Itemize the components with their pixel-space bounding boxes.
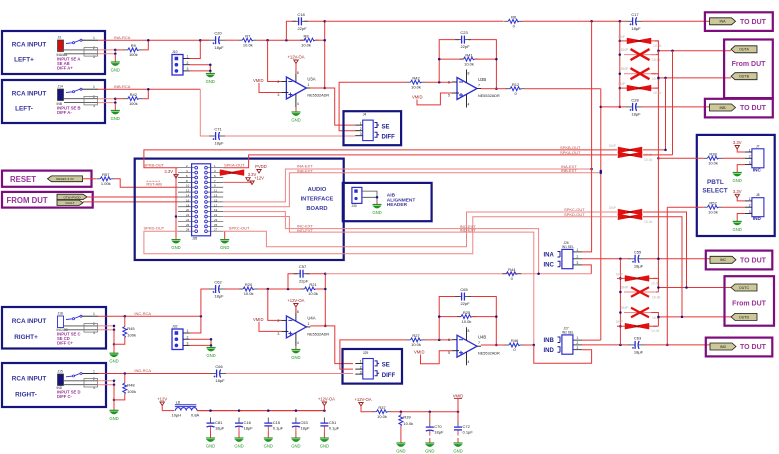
svg-text:100k: 100k [129, 101, 138, 106]
svg-text:1: 1 [93, 369, 95, 373]
svg-text:13: 13 [214, 194, 218, 198]
resistor R12 0 [506, 82, 525, 96]
switch contact J18 pin1 [66, 315, 82, 320]
svg-text:11: 11 [214, 189, 217, 193]
svg-text:U4A: U4A [307, 315, 315, 320]
svg-text:18µF: 18µF [214, 45, 224, 50]
wire U3A output to J4 pin1 [325, 88, 356, 125]
svg-text:GND: GND [111, 68, 120, 73]
svg-text:16: 16 [186, 198, 190, 202]
label INPUT SE A / SE AB / DIFF A+ [57, 57, 80, 71]
svg-text:3: 3 [577, 346, 579, 350]
svg-text:18µF: 18µF [215, 426, 225, 431]
svg-text:1: 1 [749, 197, 751, 201]
svg-text:3: 3 [187, 67, 189, 71]
capacitor C65 22pF feedback U4B [439, 297, 496, 346]
wire R6 to C17 [523, 20, 626, 22]
svg-text:R39: R39 [403, 415, 411, 420]
pin stubs J15 1,2,3 [64, 369, 98, 390]
svg-text:DNP: DNP [618, 82, 626, 86]
op-amp U4A NE5532ADR [277, 308, 329, 346]
svg-text:DIFF C+: DIFF C+ [57, 341, 73, 346]
svg-text:C15: C15 [273, 420, 281, 425]
junction U3B inverting [438, 81, 441, 84]
svg-text:R12: R12 [512, 82, 520, 87]
wire J28 left pin bus [175, 168, 177, 232]
block FROM DUT box [2, 192, 93, 208]
wire INA-EXT [223, 169, 591, 202]
DNP resistor bridge INA-OUTA [618, 35, 662, 48]
tag FAULT [57, 200, 83, 205]
svg-text:VMID: VMID [253, 317, 263, 322]
resistor R42b 10.0k input U3B [407, 75, 426, 89]
resistor R37 10.0k [373, 405, 392, 419]
capacitor C16 18uF [235, 418, 253, 432]
block RCA INPUT RIGHT- box [2, 363, 106, 407]
junction J10 pins 2,3 [209, 63, 212, 72]
ground below J15 [109, 410, 118, 421]
wire R6 line from U3A output [325, 20, 504, 22]
wire SPKA-OUT exits AIB top [223, 155, 617, 168]
svg-text:0.1µF: 0.1µF [329, 426, 340, 431]
ground at J30 [372, 202, 381, 216]
junction J18 pins [113, 315, 126, 346]
svg-text:10.0k: 10.0k [652, 296, 661, 300]
svg-text:INA: INA [720, 20, 727, 24]
svg-text:22pF: 22pF [299, 278, 309, 283]
svg-text:GND: GND [206, 444, 215, 449]
connector shell J14 pins 2,3 [84, 96, 98, 105]
svg-text:J10: J10 [172, 50, 178, 54]
svg-text:18µF: 18µF [631, 112, 641, 117]
jumper J4 [355, 113, 373, 141]
wire C20 to R7 [225, 39, 238, 41]
junction OUTA [657, 50, 674, 160]
wire J18 pins 2,3 common [98, 326, 114, 330]
svg-text:J4: J4 [363, 113, 367, 117]
capacitor C70 18uF [426, 422, 444, 436]
svg-text:DNP: DNP [636, 39, 642, 43]
wire OUTB to SPKB bridge vertical [665, 78, 667, 150]
svg-text:GND: GND [109, 359, 118, 364]
wire OUTB line [658, 77, 731, 79]
ground below J14 [111, 103, 120, 121]
header J32 [172, 325, 190, 350]
junction J3 pins 2,3 [114, 49, 117, 55]
svg-text:SPKD-OUT: SPKD-OUT [564, 212, 585, 217]
junction inverting node [266, 39, 287, 42]
wire to R9 [115, 49, 124, 51]
svg-text:C62: C62 [214, 280, 222, 285]
junction J28 left bus [175, 215, 178, 218]
svg-text:10.0k: 10.0k [462, 319, 472, 324]
wire +12V to L6 [162, 410, 174, 412]
wire R9 to INA-RCA [143, 40, 149, 50]
tag OUTC from DUT [731, 284, 757, 291]
junction J15 pins [113, 372, 126, 401]
junction C55/OUTA vertical [657, 258, 660, 261]
wire OUTD line [658, 316, 731, 318]
wire X4 to OUTD [651, 313, 658, 327]
svg-text:C63: C63 [634, 335, 642, 340]
svg-text:C66: C66 [215, 364, 223, 369]
svg-text:C55: C55 [634, 249, 642, 254]
svg-text:15: 15 [214, 198, 218, 202]
junction J32 pins 2,3 [210, 338, 213, 347]
svg-text:RCA INPUT: RCA INPUT [12, 318, 47, 325]
vertical OUTA to R38 [657, 51, 659, 288]
svg-text:1: 1 [93, 312, 95, 316]
svg-text:21: 21 [214, 213, 218, 217]
junction R52 vertical at C63 line [666, 344, 669, 347]
resistor R25 10.0k feedback U4B [439, 316, 461, 318]
svg-text:4: 4 [297, 341, 299, 345]
wire IND-EXT [223, 217, 534, 345]
svg-text:J29: J29 [363, 351, 369, 355]
svg-text:+12V-OA: +12V-OA [287, 298, 304, 303]
svg-text:OUTC: OUTC [739, 286, 750, 290]
svg-text:10.0k: 10.0k [652, 58, 661, 62]
DNP crossed resistor INA-OUTA [621, 48, 661, 62]
block RCA INPUT RIGHT+ box [2, 307, 106, 349]
resistor R45 100k to ground [124, 316, 126, 326]
svg-text:GND: GND [291, 355, 300, 360]
ground below J10 [206, 72, 215, 85]
capacitor C57 22pF feedback [288, 274, 325, 289]
wire R52 feed vertical to IND line [666, 207, 668, 345]
wire INC net down bridge column [619, 259, 621, 345]
svg-text:10.0k: 10.0k [653, 91, 662, 95]
power +12V-OA flag right [318, 397, 335, 406]
svg-text:From DUT: From DUT [732, 61, 767, 68]
wire C62 to R20 [225, 288, 243, 290]
wire J4 pin2 to R42b input [339, 82, 406, 131]
wire J30 pins to ground [362, 191, 377, 201]
bracket SE [375, 123, 380, 128]
svg-text:R25: R25 [463, 310, 471, 315]
svg-text:INC: INC [544, 262, 555, 268]
svg-text:U4B: U4B [478, 335, 486, 340]
svg-text:18µF: 18µF [631, 26, 641, 31]
tag INB to DUT [710, 104, 736, 111]
wire SPKC-OUT exits AIB [223, 212, 617, 247]
junction output node [323, 20, 326, 89]
svg-text:SPKB-OUT: SPKB-OUT [144, 162, 165, 167]
svg-text:C53: C53 [300, 420, 308, 425]
svg-text:J7: J7 [756, 144, 760, 148]
svg-text:19: 19 [214, 208, 218, 212]
wire 3.3V to J8 pin1 [737, 198, 745, 201]
ground below C15 [264, 432, 273, 449]
svg-text:J8: J8 [756, 193, 760, 197]
svg-text:AUDIO: AUDIO [308, 187, 327, 193]
svg-text:7: 7 [478, 84, 480, 88]
wire R46 to J27 route [524, 344, 534, 346]
svg-text:SPKA-OUT: SPKA-OUT [560, 150, 581, 155]
svg-text:GND: GND [425, 449, 434, 454]
capacitor C81 18uF [207, 418, 225, 432]
wire INC-RCA to J32 pin1 [190, 316, 201, 333]
svg-text:1: 1 [93, 36, 95, 40]
svg-text:SE: SE [382, 363, 390, 369]
wire R21 to output node [316, 288, 326, 290]
wire under-route to J27 pin3 [534, 345, 592, 363]
svg-text:2: 2 [577, 341, 579, 345]
wire INC to J26 pin3 [582, 265, 591, 274]
svg-text:6: 6 [448, 81, 450, 85]
junction C55 line [619, 258, 622, 261]
svg-text:10.0k: 10.0k [651, 329, 660, 333]
pin stubs J3 1,2,3 [64, 36, 98, 59]
svg-text:GND: GND [206, 353, 215, 358]
svg-text:1: 1 [577, 336, 579, 340]
wire to R37 [367, 411, 374, 413]
wire SPKA DNP to vertical [643, 154, 673, 156]
wire inverting node down to U3A pin2 [268, 40, 282, 81]
svg-text:RIGHT+: RIGHT+ [14, 334, 38, 341]
wire C28 to TO DUT INB [642, 106, 711, 108]
junction INC-RCA/J32 [200, 315, 203, 318]
DNP resistor bridge IND-OUTD [616, 320, 660, 333]
svg-text:INB-EXT: INB-EXT [561, 168, 577, 173]
wire J29 pin2 to R27 [340, 340, 407, 369]
svg-text:C72: C72 [463, 424, 471, 429]
svg-text:TO DUT: TO DUT [740, 344, 767, 351]
junction R42/INB-RCA [147, 88, 150, 91]
pin stubs J18 1,2,3 [64, 312, 98, 335]
wire DNP3 to OUTC [651, 278, 658, 292]
jumper J26 IN1 SEL [562, 241, 582, 269]
svg-text:IND-RCA: IND-RCA [134, 368, 151, 373]
wire to R42 [115, 98, 124, 100]
svg-text:INTERFACE: INTERFACE [301, 197, 334, 203]
junction R44/INC-EXT [537, 272, 540, 275]
connector J14 (RCA jack INB) [57, 85, 64, 106]
svg-text:R52: R52 [709, 200, 717, 205]
svg-text:25: 25 [214, 223, 218, 227]
wire INA from R6 down to J26 pin1 [582, 21, 592, 252]
inductor L6 10uH 0.8A [172, 400, 200, 418]
wire INC-EXT [223, 212, 538, 274]
svg-text:R48: R48 [127, 383, 135, 388]
svg-text:R8: R8 [303, 33, 309, 38]
svg-text:GND: GND [733, 227, 742, 232]
svg-text:DNP: DNP [609, 144, 617, 148]
wire OTW to AIB [87, 196, 178, 198]
junction VMID node [400, 410, 460, 413]
svg-text:27: 27 [214, 228, 218, 232]
power PVDD at J28 [255, 164, 267, 173]
block SE/DIFF box J4 [344, 111, 402, 145]
resistor R38 10.0k [704, 152, 723, 166]
ground below U3A pin4 [295, 107, 297, 112]
svg-text:PBTL: PBTL [707, 179, 724, 186]
jumper J29 [355, 351, 373, 379]
svg-text:RIGHT-: RIGHT- [15, 391, 37, 398]
svg-text:7: 7 [478, 341, 480, 345]
svg-text:TO DUT: TO DUT [740, 19, 767, 26]
resistor R44 0 [502, 267, 521, 281]
svg-text:3: 3 [749, 161, 751, 165]
svg-text:3: 3 [277, 93, 279, 97]
svg-text:OUTA: OUTA [739, 48, 749, 52]
wire C63 to TO DUT IND [645, 344, 712, 346]
pin stubs J14 1,2,3 [64, 85, 98, 108]
wire R44 line INC [325, 273, 591, 275]
wire R27 to U4B pin6 [426, 339, 453, 341]
wire SPKB-OUT exits AIB [144, 150, 617, 168]
wire J8 pin3 to ground [737, 214, 745, 222]
DNP bowtie SPKA-OUTA [618, 152, 653, 162]
wire output vertical [324, 21, 326, 88]
block From DUT box A/B [724, 40, 773, 99]
ground below J28 left [175, 231, 177, 239]
svg-text:RCA INPUT: RCA INPUT [12, 42, 47, 49]
svg-text:DNP: DNP [609, 206, 617, 210]
junction R25 ends [438, 315, 498, 346]
vertical U4A output node [324, 274, 326, 326]
connector shell J3 pins 2,3 [84, 48, 98, 57]
tag OUTB from DUT [731, 73, 757, 80]
svg-text:C20: C20 [214, 31, 222, 36]
svg-text:8: 8 [297, 310, 299, 314]
label INPUT SE B / DIFF A- [57, 106, 81, 116]
svg-text:C71: C71 [214, 127, 222, 132]
wire R42b to U3B pin6 [426, 81, 453, 83]
junction U4A output [324, 272, 327, 327]
DNP resistor bridge INC-OUTC [616, 272, 660, 285]
block TO DUT box IND [706, 338, 773, 357]
block RESET box [2, 171, 92, 187]
wire OUTC line [658, 287, 731, 289]
svg-text:INB: INB [544, 338, 555, 344]
svg-text:R20: R20 [245, 282, 253, 287]
resistor R21 10.0k feedback [301, 282, 320, 296]
svg-text:SPKD-OUT: SPKD-OUT [144, 226, 165, 231]
ground at J7 [733, 173, 742, 184]
wire FAULT to AIB [83, 201, 178, 203]
switch contact J3 pin1 [66, 39, 82, 44]
svg-text:SPKA-OUT: SPKA-OUT [224, 162, 245, 167]
svg-text:3: 3 [277, 332, 279, 336]
wire node down to U4A pin2 [268, 289, 282, 320]
svg-text:C28: C28 [631, 97, 639, 102]
ground below J18 [109, 353, 118, 364]
svg-text:J15: J15 [58, 370, 63, 374]
svg-text:18µF: 18µF [214, 141, 224, 146]
capacitor C63 18uF [629, 335, 645, 354]
svg-text:DNP: DNP [616, 320, 624, 324]
power +12V-OA at U4A pin8 [287, 298, 304, 307]
junction R46/IND-EXT [533, 344, 536, 347]
svg-text:10.0k: 10.0k [644, 220, 653, 224]
ground below C53 [291, 432, 300, 449]
svg-text:VMID: VMID [412, 95, 422, 100]
wire C28 line [601, 106, 626, 108]
resistor R48 100k to ground [124, 374, 126, 384]
svg-text:2: 2 [277, 80, 279, 84]
wire +12V-OA rail [197, 410, 324, 412]
svg-text:0.8A: 0.8A [191, 413, 200, 418]
svg-text:DIFF A+: DIFF A+ [57, 66, 73, 71]
svg-text:1: 1 [187, 329, 189, 333]
svg-text:+12V: +12V [157, 397, 167, 402]
wire VMID to U4A pin3 [259, 322, 281, 332]
svg-text:NE5532ADR: NE5532ADR [478, 94, 500, 98]
svg-text:DNP: DNP [616, 272, 624, 276]
capacitor C51 0.1uF [320, 418, 339, 432]
svg-text:18µF: 18µF [244, 426, 254, 431]
svg-text:DIFF C-: DIFF C- [57, 394, 72, 399]
resistor R46 0 [505, 338, 524, 352]
svg-text:DNP: DNP [636, 86, 642, 90]
connector J18 (RCA jack INC) [57, 312, 69, 332]
svg-text:C51: C51 [329, 420, 337, 425]
svg-text:DNP: DNP [627, 153, 633, 157]
wire R38 to J7 pin2 [723, 157, 745, 159]
label AUDIO INTERFACE BOARD [301, 187, 334, 212]
svg-text:8: 8 [297, 71, 299, 75]
svg-text:INC: INC [753, 167, 762, 172]
svg-text:5: 5 [448, 94, 450, 98]
svg-text:1: 1 [577, 248, 579, 252]
junction R41 ends [438, 58, 498, 90]
ground below R39 [396, 443, 405, 454]
svg-text:22pF: 22pF [460, 44, 470, 49]
wire J18 pin1 to INC-RCA net [98, 315, 201, 317]
junction INA-RCA/J10 [199, 39, 202, 42]
svg-text:RESET-3.3V: RESET-3.3V [56, 177, 74, 181]
wire U4A output to J29 [310, 325, 325, 327]
svg-text:GND: GND [291, 444, 300, 449]
svg-text:10.0k: 10.0k [653, 44, 662, 48]
svg-text:R42: R42 [412, 75, 420, 80]
svg-text:18µF: 18µF [300, 426, 310, 431]
power VMID label [453, 394, 463, 412]
tag IND to DUT [710, 343, 736, 350]
resistor R8 10.0k feedback [300, 33, 319, 47]
svg-text:3: 3 [577, 261, 579, 265]
svg-text:R44: R44 [508, 267, 516, 272]
svg-text:1: 1 [749, 148, 751, 152]
svg-text:C81: C81 [215, 420, 223, 425]
wire J18 common to ground [113, 330, 115, 353]
DNP resistor at AIB 3.3V [220, 170, 244, 176]
svg-text:3: 3 [93, 331, 95, 335]
block AIB ALIGNMENT HEADER box [343, 183, 432, 221]
label AIB ALIGNMENT HEADER [387, 193, 416, 209]
resistor R20 10.0k [239, 282, 258, 296]
svg-text:10: 10 [186, 184, 190, 188]
svg-text:IND: IND [544, 348, 555, 354]
resistor R42 100k [124, 92, 143, 106]
wire U3B output [481, 88, 496, 90]
svg-text:10.0k: 10.0k [377, 414, 387, 419]
svg-text:17: 17 [214, 203, 218, 207]
svg-text:BOARD: BOARD [306, 206, 327, 212]
ground below J32 [206, 346, 215, 358]
power +12V supply [157, 397, 167, 406]
svg-text:VMID: VMID [453, 394, 463, 399]
wire VMID to U4B pin5 [421, 351, 453, 364]
svg-text:RST-AIB: RST-AIB [146, 182, 162, 187]
svg-text:3.3V: 3.3V [164, 169, 173, 174]
svg-text:1: 1 [307, 322, 309, 326]
wire J15 pins 2,3 common [98, 381, 114, 385]
svg-text:4: 4 [468, 103, 470, 107]
svg-text:DNP: DNP [621, 48, 629, 52]
bracket DIFF [375, 132, 380, 137]
